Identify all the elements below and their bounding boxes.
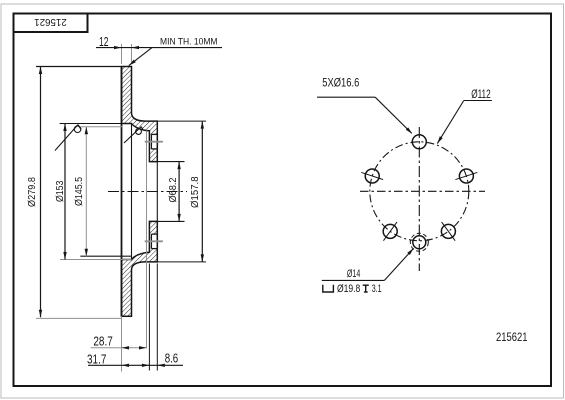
svg-text:12: 12: [99, 34, 109, 49]
svg-text:31.7: 31.7: [87, 351, 106, 366]
svg-text:3.1: 3.1: [372, 283, 382, 295]
svg-text:Ø153: Ø153: [55, 180, 66, 202]
svg-text:215621: 215621: [496, 332, 528, 344]
svg-text:MIN TH. 10MM: MIN TH. 10MM: [160, 36, 218, 47]
svg-text:Ø112: Ø112: [471, 89, 491, 101]
svg-text:8.6: 8.6: [165, 351, 179, 366]
svg-text:28.7: 28.7: [93, 334, 112, 349]
svg-text:5XØ16.6: 5XØ16.6: [322, 77, 359, 89]
svg-text:215621: 215621: [34, 16, 67, 27]
svg-text:Ø279.8: Ø279.8: [27, 177, 38, 207]
svg-text:Ø19.8: Ø19.8: [337, 283, 360, 295]
svg-text:Ø14: Ø14: [347, 268, 360, 280]
svg-text:Ø157.8: Ø157.8: [190, 176, 201, 208]
svg-text:Ø68.2: Ø68.2: [168, 177, 179, 202]
svg-text:Ø145.5: Ø145.5: [74, 177, 85, 206]
